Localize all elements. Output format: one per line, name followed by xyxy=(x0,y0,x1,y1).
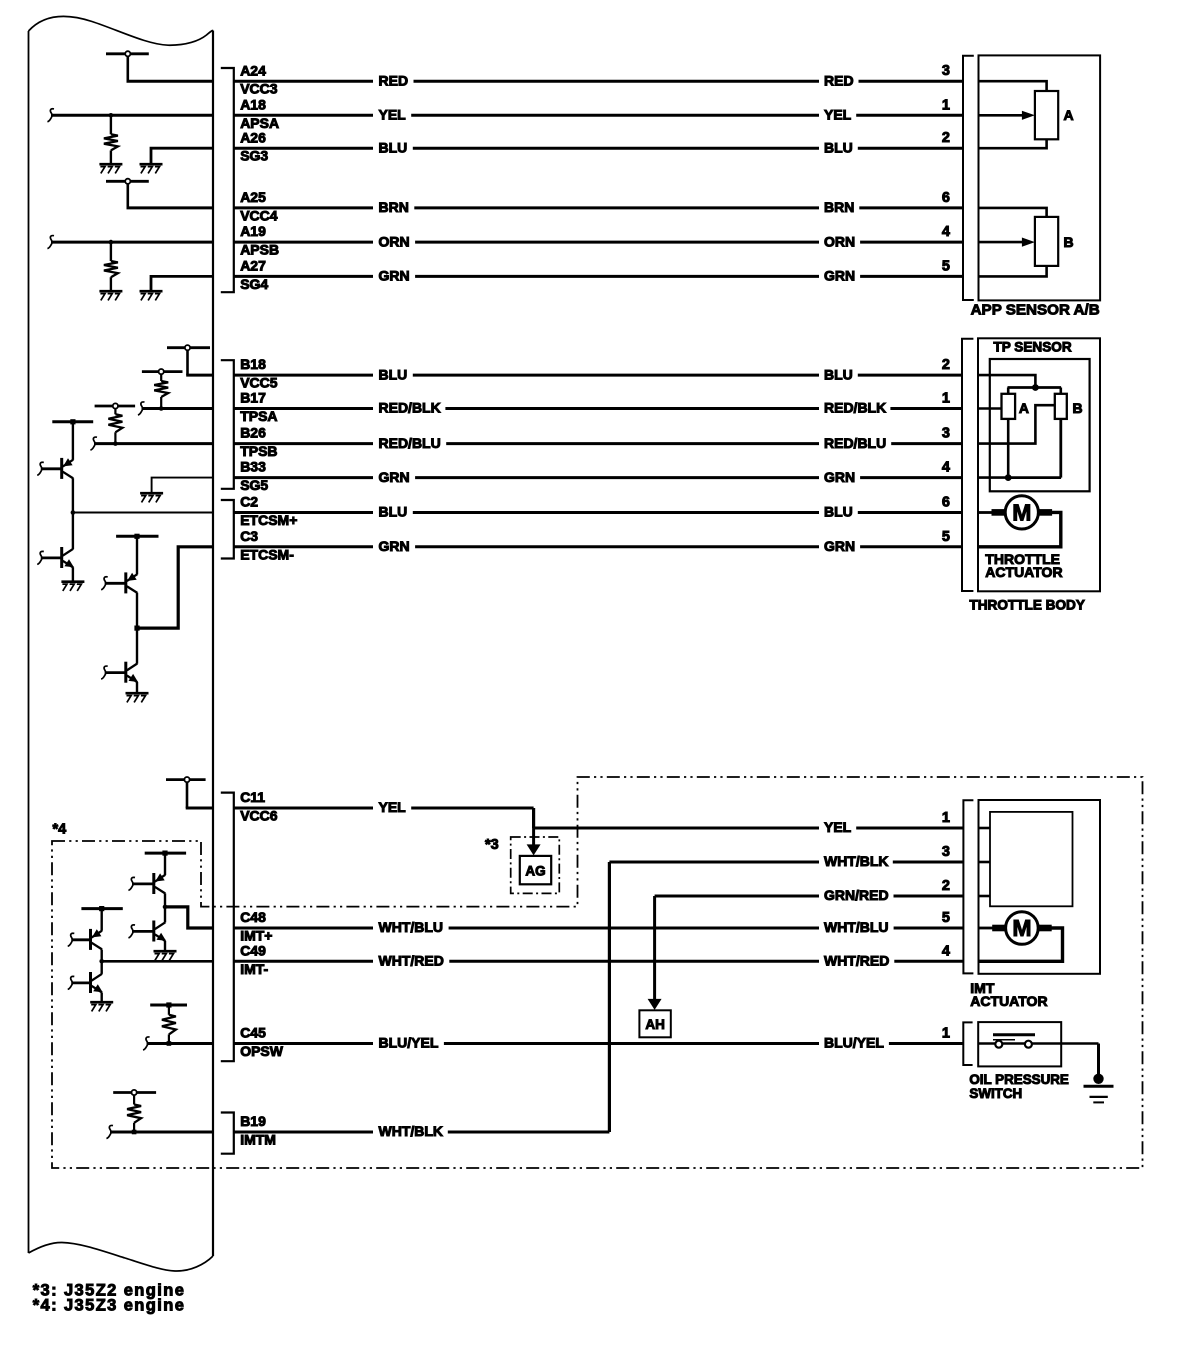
wire C3/ETCSM- inside ECM xyxy=(137,547,213,628)
wire YEL to IMT pin 1 xyxy=(534,810,963,835)
wire VCC5 to pin B18 xyxy=(186,374,213,377)
svg-text:BLU: BLU xyxy=(379,366,408,382)
svg-text:IMT-: IMT- xyxy=(240,961,268,977)
wire pin6 ETCSM+ to motor xyxy=(978,511,992,514)
ground (APSB resistor) xyxy=(99,290,122,293)
svg-text:3: 3 xyxy=(942,63,950,79)
svg-text:VCC4: VCC4 xyxy=(240,207,278,223)
svg-text:BRN: BRN xyxy=(379,199,409,215)
svg-text:2: 2 xyxy=(942,130,950,146)
pin C11/VCC6 wire YEL xyxy=(234,789,534,823)
svg-text:RED: RED xyxy=(379,72,409,88)
svg-text:A18: A18 xyxy=(240,96,266,112)
svg-text:A25: A25 xyxy=(240,189,266,205)
potentiometer B (APP) xyxy=(1035,217,1058,266)
resistor IMTM pull-up xyxy=(127,1105,141,1133)
potentiometer A (APP) xyxy=(1035,91,1058,139)
svg-text:AH: AH xyxy=(645,1017,665,1032)
supply node VCC3 inside ECM xyxy=(106,51,149,81)
transistor Q2 (NPN driver ETCSM+) xyxy=(37,547,74,568)
svg-text:GRN: GRN xyxy=(824,538,855,554)
wire TPSA inside ECM xyxy=(142,407,214,410)
junction on IMTM xyxy=(132,1130,137,1135)
svg-text:BLU/YEL: BLU/YEL xyxy=(379,1035,439,1051)
svg-text:4: 4 xyxy=(942,460,950,476)
pin A24/VCC3 wire RED xyxy=(234,62,963,96)
pin C48/IMT+ wire WHT/BLU xyxy=(234,909,963,943)
wire Q8 collector to IMT- node xyxy=(100,961,102,974)
collector supply rail Q5 xyxy=(145,851,186,876)
wire pin2 to TP supply bus xyxy=(978,375,1035,387)
supply node TPSB pull-up xyxy=(95,403,136,414)
riser pot B top xyxy=(1060,388,1063,394)
svg-text:GRN: GRN xyxy=(379,469,410,485)
ground (APSA resistor) xyxy=(99,163,122,166)
wire Q6 emitter to ground xyxy=(164,941,166,950)
wiper arrow pot B (pin 4) xyxy=(979,238,1035,247)
TP supply bus xyxy=(1008,386,1062,389)
svg-text:B26: B26 xyxy=(240,425,266,441)
svg-text:ACTUATOR: ACTUATOR xyxy=(985,564,1062,580)
junction on TPSA xyxy=(159,406,164,411)
svg-text:C48: C48 xyxy=(240,909,266,925)
switch contact 2 xyxy=(1025,1041,1032,1048)
wire pin5 ETCSM- to motor xyxy=(978,512,1061,546)
svg-text:A26: A26 xyxy=(240,129,266,145)
ground (Q4 emitter) xyxy=(126,692,149,695)
wire pin4 to TP ground bus xyxy=(978,476,1008,479)
junction on OPSW xyxy=(167,1041,172,1046)
wire pin1 into solenoid xyxy=(979,827,991,830)
svg-text:YEL: YEL xyxy=(824,107,852,123)
svg-text:4: 4 xyxy=(942,224,950,240)
svg-text:1: 1 xyxy=(942,1026,950,1042)
transistor Q3 (PNP driver ETCSM-) xyxy=(101,572,137,593)
ECM torn bottom edge xyxy=(29,1242,214,1271)
svg-text:VCC5: VCC5 xyxy=(240,375,278,391)
svg-text:5: 5 xyxy=(942,529,950,545)
svg-text:ORN: ORN xyxy=(379,233,410,249)
transistor Q5 (PNP driver IMT+) xyxy=(128,873,165,894)
wire pin4 to IMT motor xyxy=(979,928,1063,961)
supply node TPSA pull-up xyxy=(142,369,183,381)
wire Q3 collector to ETCSM- node xyxy=(136,593,138,628)
svg-text:GRN: GRN xyxy=(379,268,410,284)
pin C2/ETCSM+ wire BLU xyxy=(234,494,962,528)
TP sensor inner box xyxy=(990,359,1090,491)
wire Q8 emitter to ground xyxy=(100,993,102,1001)
pin C3/ETCSM- wire GRN xyxy=(234,528,962,562)
transistor Q8 (NPN driver IMT-) xyxy=(68,972,103,993)
ground (SG4) xyxy=(140,290,163,293)
svg-text:B18: B18 xyxy=(240,356,266,372)
ground (Q2 emitter) xyxy=(61,580,84,583)
svg-text:M: M xyxy=(1012,915,1031,941)
svg-text:APSB: APSB xyxy=(240,242,279,258)
wire pin3 to pot A top xyxy=(979,81,1047,91)
svg-text:WHT/BLU: WHT/BLU xyxy=(824,919,889,935)
svg-text:*4: *4 xyxy=(53,822,67,838)
wire GRN/RED to IMT pin 2 xyxy=(655,878,963,903)
connector bracket (APP sensor) xyxy=(963,56,974,300)
throttle actuator motor M1 xyxy=(992,496,1053,529)
wire WHT/BLK from B19 riser xyxy=(608,862,611,1132)
ECM connector bracket (C pins, section 3) xyxy=(221,793,234,1062)
svg-text:BLU: BLU xyxy=(824,366,853,382)
pin B18/VCC5 wire BLU xyxy=(234,356,962,390)
svg-text:GRN: GRN xyxy=(824,469,855,485)
junction node IMT+ xyxy=(163,905,168,910)
wire C48/IMT+ inside ECM xyxy=(165,907,213,928)
svg-text:C45: C45 xyxy=(240,1025,266,1041)
connector bracket (throttle body) xyxy=(962,339,973,591)
connector bracket (IMT actuator) xyxy=(963,800,973,973)
svg-text:B17: B17 xyxy=(240,390,266,406)
wire Q5 collector to IMT+ node xyxy=(164,893,166,907)
pin A18/APSA wire YEL xyxy=(234,96,963,130)
wire VCC3 to pin A24 xyxy=(127,80,214,83)
svg-text:GRN: GRN xyxy=(824,268,855,284)
svg-text:C2: C2 xyxy=(240,494,258,510)
wire through switch xyxy=(978,1042,1098,1045)
svg-text:APP SENSOR A/B: APP SENSOR A/B xyxy=(971,301,1100,318)
continuation mark TPSA xyxy=(138,402,145,415)
engine-variant boundary *4 (dash-dot outline) xyxy=(52,777,1143,1168)
continuation mark APSB xyxy=(47,236,54,249)
dash-dot box around AG (*3) xyxy=(511,837,560,893)
wire WHT/BLK to IMT pin 3 xyxy=(609,844,963,869)
svg-text:RED/BLU: RED/BLU xyxy=(379,435,441,451)
junction on TPSB xyxy=(113,441,118,446)
wire Q4 emitter to ground xyxy=(136,682,138,692)
svg-text:TPSA: TPSA xyxy=(240,408,277,424)
svg-text:GRN/RED: GRN/RED xyxy=(824,887,889,903)
svg-text:RED/BLK: RED/BLK xyxy=(379,400,441,416)
wiper arrow pot A (pin 1) xyxy=(979,111,1035,120)
earth ground (oil pressure switch) xyxy=(1084,1074,1114,1103)
ECM torn top edge xyxy=(29,16,214,45)
riser pot A top xyxy=(1007,388,1010,394)
svg-text:A19: A19 xyxy=(240,223,266,239)
svg-text:ETCSM+: ETCSM+ xyxy=(240,512,297,528)
junction TP bus xyxy=(1032,384,1039,391)
svg-text:WHT/BLK: WHT/BLK xyxy=(379,1123,444,1139)
wire VCC4 to pin A25 xyxy=(127,206,214,209)
TP potentiometer B xyxy=(1055,394,1067,419)
wire APSA inside ECM xyxy=(51,114,213,117)
wire pin2 into solenoid xyxy=(979,895,991,898)
svg-text:6: 6 xyxy=(942,190,950,206)
svg-text:M: M xyxy=(1012,500,1031,526)
junction node ETCSM+ xyxy=(71,510,76,515)
label IMT ACTUATOR xyxy=(970,980,1047,1009)
svg-text:WHT/RED: WHT/RED xyxy=(379,953,444,969)
svg-text:3: 3 xyxy=(942,844,950,860)
riser pot B bottom xyxy=(1059,419,1062,478)
svg-text:OIL PRESSURE: OIL PRESSURE xyxy=(969,1072,1069,1087)
svg-text:4: 4 xyxy=(942,943,950,959)
ground (Q8 emitter) xyxy=(90,1001,113,1004)
wire pin3 into solenoid xyxy=(979,861,991,864)
pin A19/APSB wire ORN xyxy=(234,223,963,257)
ECM body right edge xyxy=(212,31,214,1257)
transistor Q1 (PNP driver ETCSM+) xyxy=(37,458,73,479)
svg-text:SG4: SG4 xyxy=(240,276,268,292)
svg-text:1: 1 xyxy=(942,97,950,113)
pin C45/OPSW wire BLU/YEL xyxy=(234,1025,963,1059)
wire pin5 to pot B bottom xyxy=(979,266,1047,277)
wire pin2 to pot A bottom xyxy=(979,139,1047,148)
svg-text:B: B xyxy=(1073,400,1083,416)
svg-text:3: 3 xyxy=(942,426,950,442)
svg-text:B33: B33 xyxy=(240,459,266,475)
junction on APSB xyxy=(109,240,114,245)
IMT motor M2 xyxy=(992,912,1051,945)
resistor TPSB pull-up xyxy=(108,414,122,443)
ground (SG5) xyxy=(140,492,163,495)
switch blade thin line xyxy=(993,1039,1015,1041)
svg-text:B19: B19 xyxy=(240,1113,266,1129)
svg-text:RED/BLU: RED/BLU xyxy=(824,435,886,451)
svg-text:RED: RED xyxy=(824,72,854,88)
wire IMTM inside ECM xyxy=(110,1131,213,1134)
svg-text:A: A xyxy=(1064,107,1074,123)
ground (SG3) xyxy=(140,163,163,166)
svg-text:ACTUATOR: ACTUATOR xyxy=(970,993,1047,1009)
title OIL PRESSURE SWITCH xyxy=(969,1072,1069,1101)
wire pin6 to pot B top xyxy=(979,208,1047,217)
svg-text:BLU: BLU xyxy=(824,504,853,520)
svg-text:WHT/BLK: WHT/BLK xyxy=(824,853,889,869)
switch blade bar xyxy=(993,1033,1035,1036)
APP sensor A/B box xyxy=(979,55,1101,300)
continuation mark TPSB xyxy=(90,437,97,450)
svg-text:BRN: BRN xyxy=(824,199,854,215)
svg-text:VCC3: VCC3 xyxy=(240,81,278,97)
junction node ETCSM- xyxy=(134,626,139,631)
wire Q2 emitter to ground xyxy=(72,567,74,580)
supply node VCC5 inside ECM xyxy=(167,345,210,375)
wire Q6 collector to IMT+ node xyxy=(164,907,166,923)
switch contact 1 xyxy=(995,1041,1002,1048)
oil pressure switch box xyxy=(978,1022,1061,1066)
svg-text:A27: A27 xyxy=(240,258,266,274)
wire pin5 to IMT motor xyxy=(979,927,993,930)
svg-text:YEL: YEL xyxy=(824,819,852,835)
svg-text:5: 5 xyxy=(942,910,950,926)
ground (Q6 emitter) xyxy=(154,950,177,953)
wire Q2 collector to ETCSM+ node xyxy=(72,513,74,550)
svg-text:1: 1 xyxy=(942,810,950,826)
wire YEL drop to AG/IMT xyxy=(532,808,535,828)
wire Q4 collector to ETCSM- node xyxy=(136,628,138,664)
transistor Q7 (PNP driver IMT-) xyxy=(68,929,102,950)
wire SG3 inside ECM xyxy=(151,148,213,163)
svg-text:TP SENSOR: TP SENSOR xyxy=(993,340,1071,355)
svg-text:SG3: SG3 xyxy=(240,148,268,164)
ECM connector bracket (C2/C3 pins) xyxy=(221,500,234,559)
arrow into AG connector xyxy=(527,828,541,855)
continuation mark OPSW xyxy=(143,1037,150,1050)
svg-text:2: 2 xyxy=(942,357,950,373)
arrow into AH connector xyxy=(648,896,662,1010)
svg-text:BLU: BLU xyxy=(824,139,853,155)
supply node VCC6 inside ECM xyxy=(166,777,206,808)
TP potentiometer A xyxy=(1002,394,1016,419)
resistor APSB pulldown xyxy=(104,242,118,290)
svg-text:YEL: YEL xyxy=(379,799,407,815)
junction node IMT- xyxy=(99,959,104,964)
supply node VCC4 inside ECM xyxy=(106,179,149,208)
svg-text:TPSB: TPSB xyxy=(240,443,277,459)
transistor Q4 (NPN driver ETCSM-) xyxy=(101,662,138,683)
continuation mark APSA xyxy=(47,109,54,122)
wire SG5 inside ECM xyxy=(152,478,213,492)
wire TPSB inside ECM xyxy=(94,442,213,445)
pin B33/SG5 wire GRN xyxy=(234,459,962,493)
transistor Q6 (NPN driver IMT+) xyxy=(128,921,166,942)
pin B17/TPSA wire RED/BLK xyxy=(234,390,962,424)
svg-text:B: B xyxy=(1064,234,1074,250)
pin A25/VCC4 wire BRN xyxy=(234,189,963,223)
wire Q7 collector to IMT- node xyxy=(100,950,102,962)
IMT actuator box xyxy=(979,800,1101,974)
svg-text:SG5: SG5 xyxy=(240,477,268,493)
svg-text:RED/BLK: RED/BLK xyxy=(824,400,886,416)
connector AH box xyxy=(639,1010,670,1037)
svg-text:OPSW: OPSW xyxy=(240,1043,284,1059)
ECM connector bracket (B19) xyxy=(221,1113,234,1154)
resistor OPSW pull-up xyxy=(162,1015,176,1044)
riser pot A bottom xyxy=(1007,419,1010,478)
wire VCC6 to pin C11 xyxy=(186,807,213,810)
svg-text:*3: *3 xyxy=(485,837,499,853)
connector AG box xyxy=(520,856,551,884)
svg-text:IMT+: IMT+ xyxy=(240,928,272,944)
pin A26/SG3 wire BLU xyxy=(234,129,963,163)
IMT solenoid inner box xyxy=(990,812,1073,906)
svg-text:BLU/YEL: BLU/YEL xyxy=(824,1035,884,1051)
supply rail OPSW pull-up xyxy=(150,1002,187,1014)
wire pin1 TPSA wiper xyxy=(978,407,1002,410)
svg-text:A: A xyxy=(1019,400,1029,416)
svg-text:C49: C49 xyxy=(240,942,266,958)
svg-text:6: 6 xyxy=(942,495,950,511)
svg-text:A24: A24 xyxy=(240,62,266,78)
svg-text:ORN: ORN xyxy=(824,233,855,249)
wire C49/IMT- inside ECM xyxy=(102,960,213,963)
svg-text:THROTTLE BODY: THROTTLE BODY xyxy=(969,598,1085,613)
junction on APSA xyxy=(109,113,114,118)
svg-text:IMTM: IMTM xyxy=(240,1132,276,1148)
svg-text:BLU: BLU xyxy=(379,139,408,155)
pin A27/SG4 wire GRN xyxy=(234,258,963,292)
supply node IMTM pull-up xyxy=(113,1090,156,1105)
svg-text:AG: AG xyxy=(525,863,545,878)
wire to ground (oil pressure switch) xyxy=(1097,1044,1100,1077)
label THROTTLE ACTUATOR xyxy=(985,551,1062,580)
ECM connector bracket (B pins, section 2) xyxy=(221,360,234,489)
svg-text:WHT/RED: WHT/RED xyxy=(824,953,889,969)
svg-text:GRN: GRN xyxy=(379,538,410,554)
connector bracket (oil pressure switch) xyxy=(963,1022,972,1065)
svg-text:1: 1 xyxy=(942,391,950,407)
pin B19/IMTM wire WHT/BLK xyxy=(234,1113,610,1147)
wire OPSW inside ECM xyxy=(147,1042,213,1045)
svg-text:ETCSM-: ETCSM- xyxy=(240,546,294,562)
wire SG4 inside ECM xyxy=(151,276,213,290)
svg-text:*4: J35Z3 engine: *4: J35Z3 engine xyxy=(33,1297,186,1315)
TP ground bus xyxy=(1008,476,1061,479)
svg-text:VCC6: VCC6 xyxy=(240,808,278,824)
collector supply rail Q3 xyxy=(116,534,158,575)
svg-text:WHT/BLU: WHT/BLU xyxy=(379,919,444,935)
svg-text:YEL: YEL xyxy=(379,107,407,123)
ECM connector bracket (A pins, section 1) xyxy=(221,68,234,292)
svg-text:5: 5 xyxy=(942,258,950,274)
pin B26/TPSB wire RED/BLU xyxy=(234,425,962,459)
ECM body left edge xyxy=(28,31,30,1253)
wire Q1 collector to C2 node xyxy=(72,478,74,512)
svg-text:2: 2 xyxy=(942,878,950,894)
continuation mark IMTM xyxy=(106,1125,113,1138)
svg-text:BLU: BLU xyxy=(379,504,408,520)
svg-text:C11: C11 xyxy=(240,789,265,805)
svg-text:SWITCH: SWITCH xyxy=(969,1086,1022,1101)
wire APSB inside ECM xyxy=(51,241,213,244)
pin C49/IMT- wire WHT/RED xyxy=(234,942,963,976)
throttle body box xyxy=(978,338,1100,591)
wire C2/ETCSM+ inside ECM xyxy=(73,512,213,514)
collector supply rail Q7 xyxy=(81,906,122,931)
wire pin3 TPSB wiper xyxy=(978,405,1055,443)
collector supply rail Q1 xyxy=(52,419,93,460)
resistor TPSA pull-up xyxy=(154,381,168,409)
junction TP ground bus xyxy=(1005,474,1012,481)
svg-text:C3: C3 xyxy=(240,528,258,544)
resistor APSA pulldown xyxy=(104,115,118,163)
